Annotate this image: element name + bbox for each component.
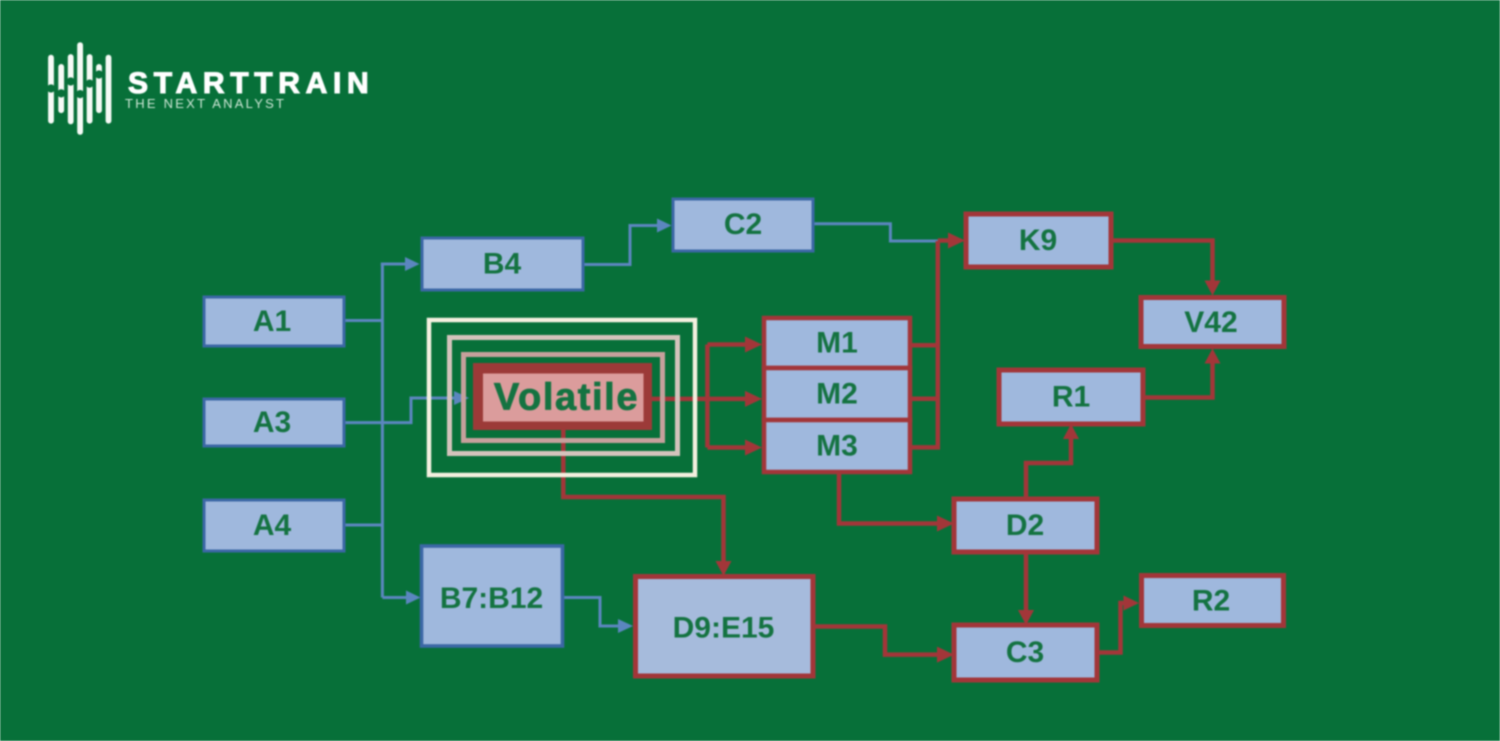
Volatile pink inner box (483, 374, 644, 422)
Volatile outer cream ring (429, 320, 695, 475)
wire D9:E15 to C3 with arrow (814, 627, 939, 655)
wire B7:B12 to D9:E15 with arrow (562, 598, 619, 627)
Volatile dark red box (473, 363, 652, 430)
wire blue main vertical trunk (381, 264, 384, 598)
box R1 (999, 370, 1143, 424)
logo slider dots (47, 70, 103, 98)
svg-text:B4: B4 (483, 248, 522, 281)
svg-text:V42: V42 (1184, 306, 1237, 339)
arrow to M3 (707, 445, 746, 450)
wire A4 to trunk (344, 524, 382, 527)
Volatile third ring (464, 355, 663, 441)
Volatile second ring (450, 338, 678, 454)
wire R1 to V42 with arrow (1143, 362, 1213, 398)
svg-text:M3: M3 (816, 430, 858, 463)
arrow to M1 (707, 342, 746, 347)
wire Volatile right exit (652, 397, 707, 402)
svg-text:A1: A1 (253, 305, 291, 338)
box A4 (204, 500, 344, 551)
svg-text:C3: C3 (1006, 636, 1044, 669)
svg-text:Volatile: Volatile (494, 377, 639, 419)
svg-text:K9: K9 (1019, 224, 1057, 257)
wire K9 to V42 with arrow (1111, 241, 1213, 283)
svg-text:D2: D2 (1006, 509, 1044, 542)
wire M1 M3 to K9 vertical (910, 345, 938, 447)
wire A1 to trunk (344, 319, 382, 322)
svg-text:M1: M1 (816, 327, 858, 360)
box M1 (764, 318, 910, 368)
arrow trunk to B7:B12 (382, 596, 407, 599)
arrow to M2 (707, 397, 746, 402)
wire D2 to C3 with arrow (1024, 552, 1029, 611)
wire M2 stub (910, 397, 938, 402)
wire M3 to D2 with arrow (839, 472, 939, 524)
wire B4 to C2 with arrow (583, 226, 658, 265)
box M3 (764, 420, 910, 472)
box V42 (1141, 298, 1284, 347)
arrow into K9 (938, 238, 950, 243)
box C3 (954, 625, 1097, 680)
box R2 (1142, 576, 1284, 626)
wire K9 vertical upper (936, 241, 941, 345)
logo icon bars (48, 42, 111, 135)
svg-text:C2: C2 (724, 208, 762, 241)
box C2 (673, 199, 813, 251)
box B7:B12 (422, 546, 563, 646)
svg-text:A3: A3 (253, 406, 291, 439)
wire D2 to R1 with arrow (1026, 438, 1071, 499)
svg-text:A4: A4 (253, 509, 292, 542)
box B4 (422, 238, 583, 290)
arrow trunk to B4 (381, 263, 406, 266)
wire C2 to K9 junction (812, 224, 938, 241)
svg-text:B7:B12: B7:B12 (440, 582, 543, 615)
svg-text:R2: R2 (1192, 585, 1230, 618)
box D2 (954, 499, 1097, 552)
wire Volatile to D9:E15 with arrow (563, 430, 723, 562)
wire A3 to Volatile with arrow (344, 398, 455, 423)
svg-text:THE NEXT ANALYST: THE NEXT ANALYST (125, 96, 286, 111)
wire C3 to R2 with arrow (1097, 603, 1124, 653)
box D9:E15 (636, 577, 814, 677)
box K9 (966, 214, 1111, 267)
wire fan vertical (705, 345, 710, 448)
box M2 (764, 368, 910, 420)
box A3 (204, 399, 344, 446)
box A1 (204, 297, 344, 346)
svg-text:R1: R1 (1052, 381, 1090, 414)
svg-text:D9:E15: D9:E15 (673, 612, 775, 645)
svg-text:M2: M2 (816, 378, 858, 411)
